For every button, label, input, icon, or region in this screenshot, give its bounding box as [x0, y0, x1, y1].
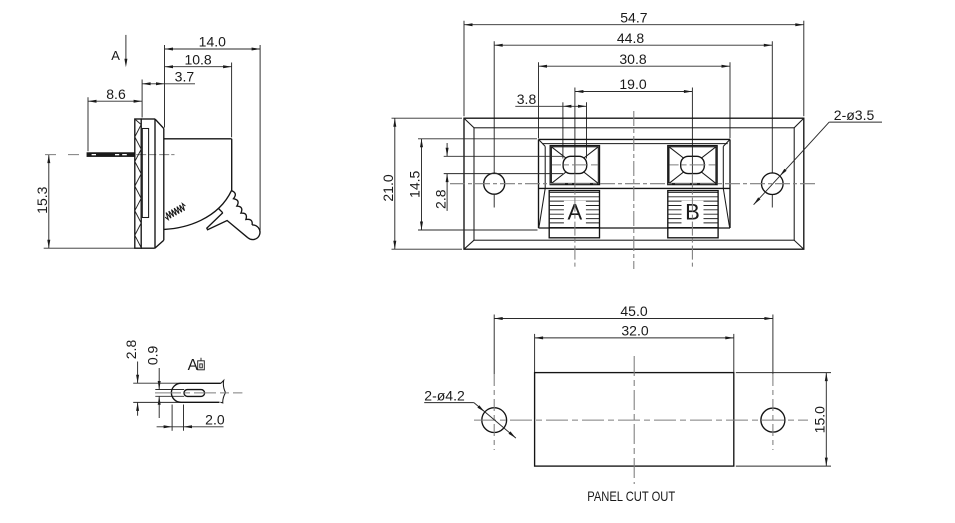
front view: button A window	[550, 146, 599, 185]
detail view: dimension 0.9	[158, 368, 160, 390]
side view: flange plate	[141, 118, 155, 120]
svg-text:15.3: 15.3	[34, 186, 50, 213]
side view: latch knob	[248, 225, 260, 240]
front view: button B centerline	[691, 156, 693, 173]
front view: bezel corner bevels	[539, 139, 546, 146]
front view: button B window	[668, 146, 717, 185]
cutout view: left hole	[482, 408, 507, 433]
svg-text:3.7: 3.7	[175, 69, 195, 85]
side view: section arrow A	[125, 35, 127, 60]
svg-text:2-ø4.2: 2-ø4.2	[424, 387, 465, 403]
side view: flange chamfer bottom	[155, 240, 164, 248]
svg-text:14.0: 14.0	[199, 34, 226, 50]
svg-text:19.0: 19.0	[619, 76, 646, 92]
front view: bezel ledge line	[539, 187, 730, 189]
front view: bezel inner sides	[544, 146, 546, 188]
front view: panel inner rect	[474, 128, 794, 240]
detail view: pin centerline	[155, 392, 242, 394]
cutout view: right hole	[761, 408, 785, 432]
svg-text:0.9: 0.9	[145, 345, 161, 365]
side view: latch stem	[207, 213, 248, 238]
front view: dimension 54.7	[464, 24, 804, 26]
svg-text:45.0: 45.0	[620, 303, 647, 319]
detail view: pin outline	[171, 383, 221, 402]
side view: slider bar	[142, 129, 148, 218]
side view: terminal pin	[87, 153, 135, 157]
svg-text:PANEL CUT OUT: PANEL CUT OUT	[587, 488, 675, 504]
detail view: dimension 2.0	[157, 426, 224, 428]
cutout view: rectangle	[535, 373, 734, 467]
cutout view: dimension 45.0	[494, 318, 773, 320]
front view: right mounting hole	[762, 173, 784, 195]
front view: dimension 14.5	[421, 139, 423, 230]
side view: pin centerline	[45, 154, 86, 156]
front view: corner bevels	[464, 118, 474, 128]
front view: button A centerline	[574, 156, 576, 173]
svg-text:30.8: 30.8	[619, 51, 646, 67]
svg-text:2.8: 2.8	[123, 340, 139, 360]
front view: bezel skirt slants	[539, 188, 545, 225]
side view: spring	[165, 204, 185, 220]
svg-text:8.6: 8.6	[106, 86, 126, 102]
front view: dimension 2.8	[446, 143, 448, 156]
svg-text:A: A	[188, 357, 199, 374]
cutout view: dimension 15.0	[825, 373, 827, 467]
front view: left mounting hole	[484, 173, 505, 194]
svg-text:44.8: 44.8	[617, 30, 644, 46]
front view: button A ellipse centerline tick	[552, 164, 598, 166]
side view: dimension 10.8	[165, 66, 232, 68]
side view: dimension 3.7	[142, 83, 195, 85]
front view: dimension 19.0	[575, 91, 693, 93]
cutout view: horizontal centerline	[474, 419, 808, 421]
detail view: slot extension lines	[155, 389, 184, 391]
front view: panel outer rect	[464, 118, 804, 249]
side view: body lower arc	[164, 191, 231, 230]
side view: body top edge	[164, 138, 232, 140]
cutout view: right hole vertical centerline	[772, 374, 774, 450]
side view: flange chamfer top	[155, 119, 164, 129]
cutout view: dimension 32.0	[535, 337, 734, 339]
side view: dimension 15.3	[48, 155, 50, 249]
detail view: pin top/bottom extension lines	[133, 382, 181, 384]
detail view: pin slot	[184, 390, 205, 397]
front view: dimension 21.0	[394, 118, 396, 249]
svg-text:2-ø3.5: 2-ø3.5	[834, 107, 875, 123]
detail view: dimension 2.8	[137, 362, 139, 384]
svg-text:A: A	[111, 48, 120, 63]
front view: bezel outer	[539, 138, 731, 140]
side view: gasket hatched strip	[135, 119, 141, 248]
front view: vertical centerline	[633, 111, 635, 269]
front view: bezel inner top line	[542, 143, 727, 145]
front view: dimension 3.8	[515, 105, 586, 107]
front view: label box A	[550, 191, 599, 193]
front view: dimension 44.8	[494, 44, 772, 46]
detail view: pin break line	[220, 380, 225, 403]
front view: dimension 30.8	[539, 65, 731, 67]
side view: dimension 14.0	[165, 48, 261, 50]
cutout view: left hole vertical centerline	[493, 374, 495, 450]
svg-text:21.0: 21.0	[380, 174, 396, 201]
front view: horizontal centerline	[450, 183, 818, 185]
side view: dimension 8.6	[88, 100, 142, 102]
side view: latch notch	[219, 209, 223, 213]
svg-text:15.0: 15.0	[812, 406, 828, 433]
svg-text:3.8: 3.8	[517, 91, 537, 107]
front view: button B ellipse centerline tick	[670, 164, 716, 166]
svg-text:10.8: 10.8	[184, 51, 211, 67]
side view: body left edge	[163, 129, 165, 241]
cutout view: rect vertical centerline	[633, 356, 635, 484]
side view: body right edge	[231, 139, 233, 191]
svg-text:2.8: 2.8	[432, 189, 448, 209]
side view: latch wavy grip	[232, 191, 253, 225]
svg-text:54.7: 54.7	[620, 9, 647, 25]
svg-text:14.5: 14.5	[407, 170, 423, 197]
svg-text:2.0: 2.0	[205, 412, 225, 428]
front view: label box B	[668, 191, 717, 193]
svg-text:32.0: 32.0	[621, 323, 648, 339]
